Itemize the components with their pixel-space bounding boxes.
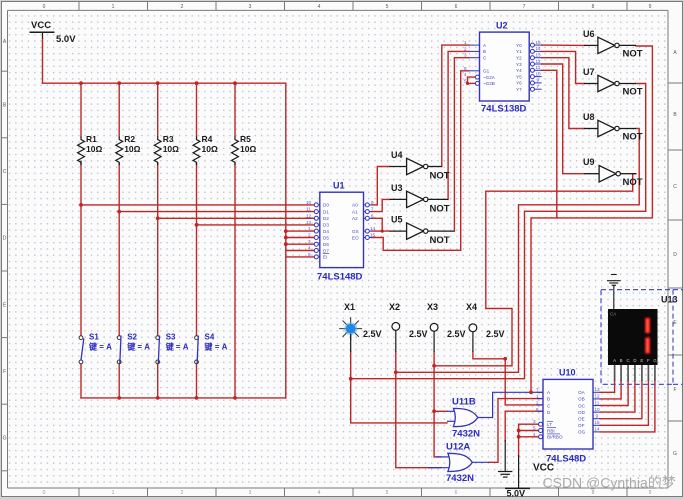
svg-text:9: 9 [371, 200, 374, 205]
wire U7 out chain to X1 row [351, 84, 646, 379]
svg-text:NOT: NOT [623, 49, 643, 60]
svg-text:C: C [627, 358, 630, 363]
svg-text:10: 10 [595, 407, 601, 412]
wire row D7 [286, 250, 315, 252]
svg-text:10Ω: 10Ω [163, 144, 179, 154]
svg-text:NOT: NOT [430, 235, 450, 246]
svg-text:R3: R3 [163, 134, 174, 144]
svg-text:11: 11 [306, 207, 311, 212]
wire U5 out to U2 C [454, 58, 468, 231]
svg-text:Y7: Y7 [516, 87, 522, 92]
svg-text:U1: U1 [333, 181, 345, 191]
svg-text:14: 14 [536, 46, 542, 51]
wire X3 column [434, 352, 441, 457]
svg-text:13: 13 [536, 53, 542, 58]
svg-text:R2: R2 [124, 134, 135, 144]
wire display D [600, 380, 635, 412]
svg-text:2.5V: 2.5V [409, 329, 428, 339]
resistor R4 [193, 134, 218, 165]
wire row D5 [286, 237, 315, 239]
svg-text:B: B [620, 358, 623, 363]
svg-text:10Ω: 10Ω [202, 144, 218, 154]
svg-text:X2: X2 [389, 302, 400, 312]
svg-text:D: D [673, 252, 677, 258]
dashed selection box U13 [601, 290, 683, 385]
wire U10 D to ground [505, 411, 543, 441]
resistor R2 [116, 134, 141, 165]
lamp X1 lit [339, 302, 381, 352]
wire row D6 [286, 243, 315, 245]
ground near U12A [498, 440, 512, 477]
wire display G [600, 380, 655, 432]
svg-text:5: 5 [464, 78, 467, 83]
wire U11B out to U10 A blue [493, 392, 543, 417]
svg-text:2.5V: 2.5V [447, 329, 466, 339]
svg-text:0: 0 [43, 490, 46, 496]
svg-text:6: 6 [464, 66, 467, 71]
svg-text:NOT: NOT [430, 203, 450, 214]
svg-text:15: 15 [536, 40, 542, 45]
wire Y4 drop [542, 70, 557, 218]
wire U8 out chain to X2 row [396, 129, 639, 373]
svg-text:G: G [653, 358, 657, 363]
svg-text:NOT: NOT [623, 87, 643, 98]
svg-text:Y3: Y3 [516, 62, 522, 67]
svg-text:S2: S2 [127, 333, 137, 342]
wire U3 out to U2 B [448, 51, 469, 199]
NOT gate U4 [390, 150, 450, 181]
wire row D3 [197, 224, 315, 226]
svg-text:F: F [3, 369, 6, 375]
svg-text:15: 15 [370, 233, 376, 238]
wire Y2 to U8 [542, 58, 584, 129]
svg-text:R4: R4 [202, 134, 213, 144]
svg-text:3: 3 [249, 490, 252, 496]
wire row EI [286, 256, 315, 258]
NOT gate U6 [583, 29, 643, 60]
wire G2B jog [468, 82, 476, 84]
svg-text:3: 3 [308, 239, 311, 244]
svg-text:9: 9 [649, 4, 652, 10]
svg-text:U4: U4 [391, 150, 403, 160]
svg-text:C: C [3, 169, 7, 175]
svg-text:14: 14 [595, 427, 601, 432]
svg-text:7: 7 [371, 207, 374, 212]
svg-text:S4: S4 [205, 333, 215, 342]
svg-text:5.0V: 5.0V [56, 34, 76, 45]
wire col R3 lower [157, 164, 159, 336]
svg-text:D6: D6 [323, 242, 329, 247]
svg-text:OE: OE [578, 417, 585, 422]
ground above display [607, 275, 621, 310]
wire X4 column to U10 C [473, 352, 543, 405]
svg-text:OB: OB [578, 397, 585, 402]
OR gate U11B 7432N [447, 397, 493, 440]
wire display E [600, 380, 642, 419]
svg-text:12: 12 [536, 59, 542, 64]
svg-text:U9: U9 [583, 157, 595, 167]
svg-text:2: 2 [308, 233, 311, 238]
switch S3 [156, 333, 189, 364]
wire col R1 below switch [80, 364, 82, 398]
svg-text:10Ω: 10Ω [86, 144, 102, 154]
svg-text:键 = A: 键 = A [88, 342, 112, 352]
wire U4 out to U2 A [442, 45, 469, 166]
svg-text:U2: U2 [496, 20, 508, 30]
svg-text:~G2A: ~G2A [483, 75, 496, 80]
wire col R4 upper [196, 83, 198, 136]
wire Y0 to U6 [542, 44, 584, 46]
svg-text:F: F [673, 387, 676, 393]
svg-text:R1: R1 [86, 134, 97, 144]
wire GS to U5 [372, 230, 390, 232]
wire col R2 lower [118, 164, 120, 336]
svg-text:D: D [3, 236, 7, 242]
svg-text:NOT: NOT [623, 132, 643, 143]
wire display C [600, 380, 628, 406]
lamp X3 [427, 302, 466, 352]
svg-text:Y1: Y1 [516, 49, 522, 54]
svg-text:74LS138D: 74LS138D [481, 104, 527, 115]
svg-text:D4: D4 [323, 229, 329, 234]
svg-text:3: 3 [464, 53, 467, 58]
svg-text:2.5V: 2.5V [363, 329, 382, 339]
switch S4 [195, 333, 228, 364]
svg-text:U10: U10 [559, 368, 576, 378]
svg-text:4: 4 [308, 246, 311, 251]
wire col R4 lower [196, 164, 198, 336]
NOT gate U5 [390, 215, 455, 246]
wire row D1 [119, 211, 314, 213]
wire EI/VCC vertical to bus [285, 83, 287, 398]
svg-text:15: 15 [595, 420, 601, 425]
svg-text:6: 6 [455, 4, 458, 10]
svg-text:E: E [640, 358, 643, 363]
svg-text:5: 5 [308, 252, 311, 257]
wire col R1 upper [80, 83, 82, 136]
svg-text:6: 6 [455, 490, 458, 496]
svg-text:4: 4 [318, 490, 321, 496]
resistor R1 [78, 134, 103, 165]
svg-text:10Ω: 10Ω [124, 144, 140, 154]
svg-text:Y0: Y0 [516, 43, 522, 48]
wire col R2 below switch [118, 364, 120, 398]
svg-text:OD: OD [578, 410, 586, 415]
svg-text:7: 7 [536, 387, 539, 392]
svg-text:X4: X4 [466, 302, 477, 312]
svg-text:6: 6 [536, 407, 539, 412]
wire A1 to U3 [372, 199, 390, 211]
OR gate U12A 7432N [428, 442, 489, 485]
svg-text:NOT: NOT [623, 177, 643, 188]
svg-text:Y5: Y5 [516, 74, 522, 79]
lamp X2 [389, 302, 428, 352]
wire U10 LT RBI BI to VCC [519, 424, 539, 456]
wire Y1 to U7 [542, 51, 584, 83]
svg-text:U3: U3 [391, 183, 403, 193]
svg-text:CA: CA [610, 312, 616, 317]
wire VCC1 down [42, 39, 44, 84]
svg-text:5: 5 [386, 490, 389, 496]
wire X3 tap to U11B [434, 410, 447, 412]
svg-text:U13: U13 [661, 295, 678, 305]
svg-text:9: 9 [649, 490, 652, 496]
wire col R1 lower [80, 164, 82, 336]
op-amp U2 74LS138D chip [464, 20, 542, 114]
svg-text:VCC: VCC [31, 20, 51, 31]
svg-text:8: 8 [592, 4, 595, 10]
resistor R5 [232, 134, 257, 165]
svg-text:11: 11 [595, 400, 600, 405]
wire VCC rail [43, 82, 286, 84]
svg-text:R5: R5 [240, 134, 251, 144]
wire S bus [81, 397, 286, 399]
wire col R4 below switch [196, 364, 198, 398]
svg-text:BI/RBO: BI/RBO [547, 435, 563, 440]
svg-text:OF: OF [578, 423, 585, 428]
resistor R3 [154, 134, 179, 165]
svg-text:NOT: NOT [430, 170, 450, 181]
svg-text:D: D [633, 358, 636, 363]
svg-text:3: 3 [249, 4, 252, 10]
op-amp U1 74LS148D chip [306, 181, 376, 283]
svg-text:D1: D1 [323, 209, 329, 214]
svg-text:B: B [483, 49, 486, 54]
svg-text:RBI: RBI [547, 428, 555, 433]
svg-text:U6: U6 [583, 29, 595, 39]
svg-text:GS: GS [352, 229, 359, 234]
svg-text:13: 13 [595, 387, 601, 392]
svg-text:7: 7 [523, 4, 526, 10]
svg-text:LT: LT [547, 422, 552, 427]
svg-text:0: 0 [43, 4, 46, 10]
svg-text:9: 9 [537, 78, 540, 83]
svg-text:CSDN @Cynthia的梦: CSDN @Cynthia的梦 [543, 475, 676, 491]
wire col R3 below switch [157, 364, 159, 398]
svg-text:EO: EO [352, 235, 359, 240]
lamp X4 [466, 302, 505, 352]
svg-text:10Ω: 10Ω [240, 144, 256, 154]
svg-text:U7: U7 [583, 67, 595, 77]
svg-text:B: B [547, 397, 550, 402]
NOT gate U8 [583, 112, 643, 143]
wire U9 out chain to X3 row [434, 174, 636, 366]
svg-text:12: 12 [595, 394, 601, 399]
svg-text:4: 4 [318, 4, 321, 10]
svg-text:S3: S3 [166, 333, 176, 342]
seven-segment display U13 [608, 309, 658, 381]
svg-text:Y6: Y6 [516, 81, 522, 86]
op-amp U10 74LS48D chip [533, 368, 600, 465]
svg-text:12: 12 [306, 213, 312, 218]
svg-text:7432N: 7432N [446, 473, 474, 484]
svg-text:OA: OA [578, 390, 586, 395]
NOT gate U9 [583, 157, 643, 188]
svg-text:6: 6 [371, 213, 374, 218]
switch S2 [117, 333, 150, 364]
svg-text:键 = A: 键 = A [165, 342, 189, 352]
VCC symbol top-left [30, 20, 77, 45]
svg-text:D7: D7 [323, 248, 329, 253]
svg-text:2: 2 [536, 401, 539, 406]
svg-text:U8: U8 [583, 112, 595, 122]
wire display B [600, 380, 621, 399]
wire col R5 upper [234, 83, 236, 136]
svg-text:键 = A: 键 = A [204, 342, 228, 352]
svg-text:1: 1 [464, 40, 467, 45]
NOT gate U7 [583, 67, 643, 98]
svg-text:U11B: U11B [452, 397, 476, 408]
svg-text:键 = A: 键 = A [126, 342, 150, 352]
svg-text:3: 3 [533, 419, 536, 424]
wire row D0 [81, 204, 314, 206]
svg-text:U5: U5 [391, 215, 403, 225]
svg-text:~G2B: ~G2B [483, 81, 495, 86]
svg-text:4: 4 [464, 72, 467, 77]
wire A2 to U5 join [372, 218, 382, 231]
svg-text:13: 13 [306, 220, 312, 225]
svg-text:4: 4 [533, 432, 536, 437]
svg-text:2: 2 [181, 4, 184, 10]
wire col R3 upper [157, 83, 159, 136]
svg-text:Y4: Y4 [516, 68, 522, 73]
svg-text:D3: D3 [323, 223, 329, 228]
VCC symbol bottom [505, 455, 554, 499]
svg-text:Y2: Y2 [516, 56, 522, 61]
svg-text:10: 10 [306, 200, 312, 205]
switch S1 [79, 333, 112, 364]
svg-text:1: 1 [536, 394, 539, 399]
wire row D2 [158, 217, 315, 219]
svg-text:5: 5 [386, 4, 389, 10]
svg-text:2: 2 [181, 490, 184, 496]
wire display F [600, 380, 648, 425]
svg-text:1: 1 [112, 4, 115, 10]
svg-text:2.5V: 2.5V [486, 329, 505, 339]
svg-text:9: 9 [596, 414, 599, 419]
wire X2 column [396, 352, 441, 468]
svg-text:11: 11 [536, 65, 541, 70]
svg-text:G: G [673, 451, 677, 457]
svg-text:C: C [673, 184, 677, 190]
svg-text:F: F [647, 358, 650, 363]
svg-text:A0: A0 [352, 203, 358, 208]
svg-text:8: 8 [592, 490, 595, 496]
wire A0 to U4 [372, 167, 390, 205]
svg-text:OG: OG [578, 430, 586, 435]
svg-text:14: 14 [370, 226, 376, 231]
svg-text:5: 5 [533, 426, 536, 431]
svg-text:G: G [3, 436, 7, 442]
wire col R5 lower to bus [234, 164, 236, 398]
svg-text:A: A [613, 358, 616, 363]
svg-text:VCC: VCC [533, 463, 554, 474]
svg-text:1: 1 [112, 490, 115, 496]
wire row D4 [286, 230, 315, 232]
svg-text:OC: OC [578, 403, 586, 408]
wire EO to G1 [372, 71, 469, 251]
svg-text:74LS148D: 74LS148D [317, 272, 363, 283]
svg-text:7: 7 [537, 84, 540, 89]
svg-text:A1: A1 [352, 209, 358, 214]
wire col R2 upper [118, 83, 120, 136]
svg-text:7432N: 7432N [452, 429, 480, 440]
svg-text:5.0V: 5.0V [507, 489, 526, 499]
wire U12A out up to U10 B [489, 399, 543, 463]
svg-text:1: 1 [308, 226, 311, 231]
svg-text:X1: X1 [344, 302, 355, 312]
svg-text:A2: A2 [352, 216, 358, 221]
wire Y3 to U9 [542, 64, 584, 174]
svg-text:10: 10 [536, 71, 542, 76]
NOT gate U3 [390, 183, 450, 214]
svg-text:D0: D0 [323, 203, 329, 208]
svg-text:D2: D2 [323, 216, 329, 221]
svg-text:G1: G1 [483, 69, 490, 74]
wire display A [600, 380, 614, 392]
svg-text:U12A: U12A [446, 442, 470, 453]
svg-text:X3: X3 [427, 302, 438, 312]
svg-text:S1: S1 [89, 333, 99, 342]
svg-text:EI: EI [323, 255, 327, 260]
svg-text:D5: D5 [323, 235, 329, 240]
wire X1 column [351, 352, 447, 423]
wire U6 out chain to U10 A [531, 46, 652, 392]
svg-text:2: 2 [464, 46, 467, 51]
wire G2A jog [468, 77, 476, 83]
